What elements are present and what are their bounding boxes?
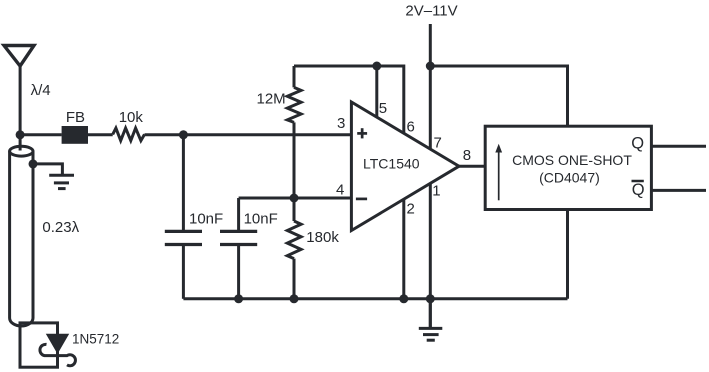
svg-text:1: 1 [432, 182, 440, 199]
svg-text:8: 8 [463, 147, 471, 164]
svg-text:2: 2 [407, 200, 415, 217]
svg-text:12M: 12M [257, 91, 286, 108]
svg-text:10nF: 10nF [244, 211, 278, 228]
svg-text:Q: Q [631, 135, 644, 153]
svg-text:LTC1540: LTC1540 [363, 156, 420, 172]
svg-text:(CD4047): (CD4047) [539, 170, 600, 186]
svg-text:λ/4: λ/4 [31, 82, 51, 99]
svg-text:FB: FB [66, 109, 85, 126]
svg-text:7: 7 [434, 135, 442, 152]
svg-text:4: 4 [336, 182, 344, 199]
svg-text:Q: Q [632, 181, 645, 199]
svg-text:180k: 180k [306, 229, 339, 246]
svg-text:3: 3 [337, 115, 345, 132]
svg-text:CMOS ONE-SHOT: CMOS ONE-SHOT [512, 152, 632, 168]
svg-text:6: 6 [407, 119, 415, 136]
svg-text:1N5712: 1N5712 [72, 332, 119, 347]
svg-text:10k: 10k [119, 109, 144, 126]
svg-text:5: 5 [379, 100, 387, 117]
svg-text:10nF: 10nF [189, 211, 223, 228]
svg-text:2V–11V: 2V–11V [405, 3, 457, 20]
svg-text:0.23λ: 0.23λ [42, 219, 79, 236]
